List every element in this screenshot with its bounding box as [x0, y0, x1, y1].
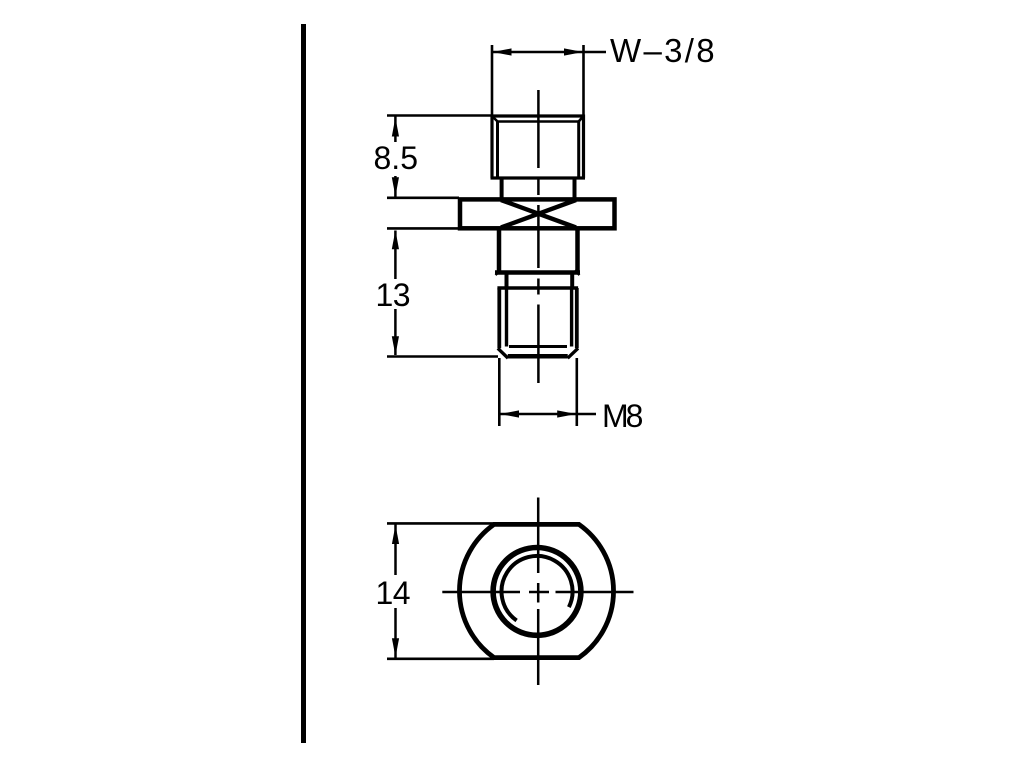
bottom view outer shape with flats: [459, 524, 613, 657]
svg-text:13: 13: [376, 277, 411, 313]
extension line 14 bottom: [387, 657, 494, 660]
W-3/8 thread minor diameter left: [496, 122, 499, 177]
upper neck right: [573, 178, 577, 199]
svg-text:M8: M8: [602, 398, 643, 434]
extension line M8 right: [575, 358, 578, 426]
M8 thread minor left: [505, 288, 508, 347]
W-3/8 thread chamfer line: [498, 120, 579, 123]
arrow W-3/8 right: [564, 48, 583, 55]
thread runout left: [505, 273, 509, 289]
shoulder tick right: [575, 271, 580, 276]
M8 end chamfer left: [498, 348, 508, 358]
dimension line 13 upper segment: [394, 231, 397, 280]
flange outline: [460, 199, 615, 228]
M8 thread minor right: [570, 288, 573, 347]
border line: [301, 24, 306, 743]
dimension line W-3/8: [492, 51, 606, 54]
svg-text:14: 14: [376, 575, 411, 611]
extension line M8 left: [498, 358, 501, 426]
lower neck right: [575, 229, 580, 273]
arrow 14 down: [392, 638, 399, 657]
shoulder tick left: [496, 271, 501, 276]
M8 end chamfer right: [568, 348, 578, 358]
arrow 13 down: [392, 336, 399, 355]
horizontal centerline bottom view: [442, 591, 633, 594]
dimension line 8.5 lower segment: [394, 176, 397, 197]
M8 thread bottom thin line: [509, 345, 567, 348]
W-3/8 chamfer corner right: [579, 117, 583, 122]
dimension line M8: [499, 413, 596, 416]
extension line 8.5 top: [387, 114, 492, 117]
arrow M8 right: [557, 410, 576, 417]
shoulder line: [495, 270, 580, 275]
dimension line 14 lower segment: [394, 608, 397, 658]
M8 thread top line: [497, 286, 578, 289]
vertical centerline bottom view: [537, 498, 540, 686]
arrow W-3/8 left: [493, 48, 512, 55]
arrow 8.5 down: [392, 177, 399, 196]
svg-text:8.5: 8.5: [374, 140, 418, 176]
upper neck left: [500, 178, 504, 199]
dimension line 14 upper segment: [394, 525, 397, 576]
extension line 14 top: [387, 522, 494, 525]
M8 end face: [508, 354, 568, 359]
M8 thread major left: [497, 288, 501, 348]
dimension line 8.5 upper segment: [394, 116, 397, 142]
W-3/8 thread body outline: [491, 115, 586, 179]
bottom view thread major circle: [493, 548, 581, 636]
extension line 13 bottom: [387, 355, 498, 358]
arrow 14 up: [392, 525, 399, 544]
thread runout right: [570, 273, 574, 289]
extension line flange top: [387, 197, 459, 200]
arrow 13 up: [392, 230, 399, 249]
dimension line 13 lower segment: [394, 309, 397, 355]
bottom view thread minor arc: [502, 556, 573, 621]
W-3/8 chamfer corner left: [493, 117, 498, 122]
flange cross X line 1: [501, 200, 576, 228]
W-3/8 thread minor diameter right: [577, 122, 580, 177]
centerline upper view: [537, 90, 540, 383]
lower neck left: [497, 229, 502, 273]
extension line W-3/8 left: [491, 45, 494, 116]
arrow M8 left: [500, 410, 519, 417]
flange cross X line 2: [501, 200, 576, 228]
arrow 8.5 up: [392, 118, 399, 137]
M8 thread major right: [575, 288, 579, 348]
extension line W-3/8 right: [582, 45, 585, 116]
extension line flange bottom: [387, 227, 459, 230]
svg-text:W–3/8: W–3/8: [610, 32, 717, 69]
